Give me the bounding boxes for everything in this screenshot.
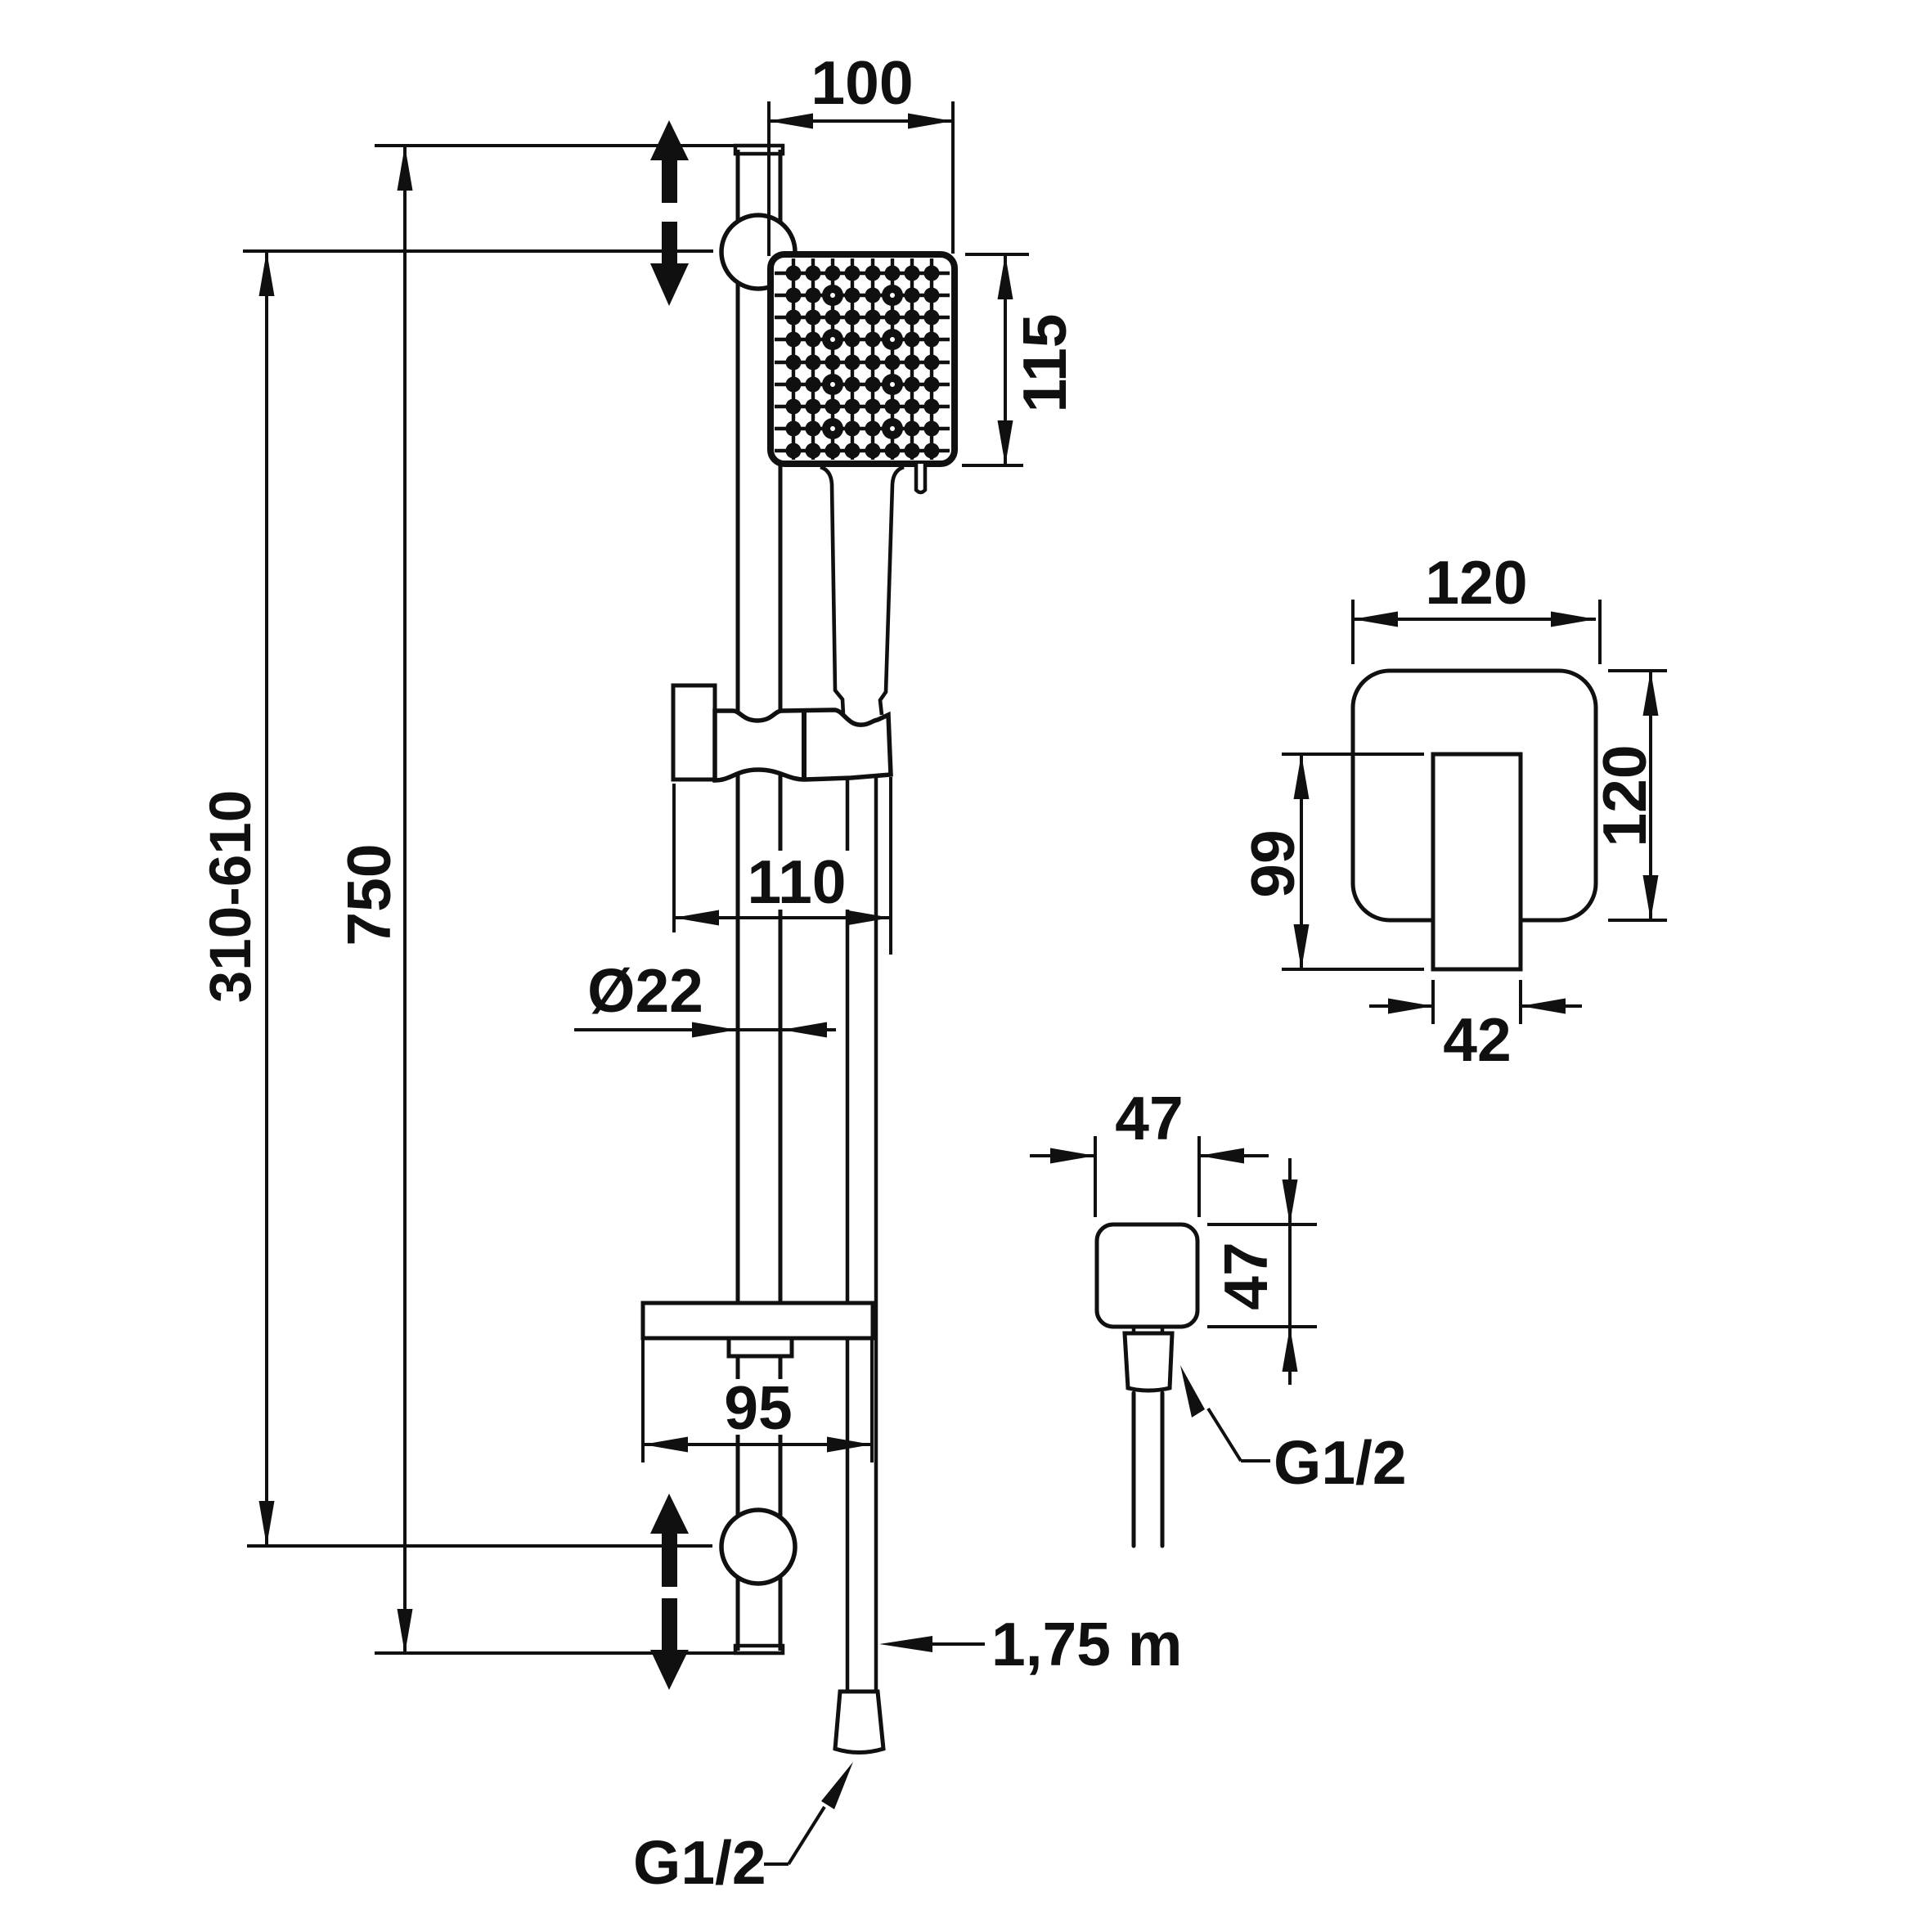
soap dish bar (643, 1303, 873, 1338)
adjustability arrow down (bottom) (650, 1598, 689, 1690)
label 1,75 m with arrow (931, 1642, 985, 1646)
rail top end cap (735, 146, 783, 154)
svg-text:95: 95 (724, 1373, 792, 1442)
dimension 99 (1282, 753, 1424, 756)
svg-text:G1/2: G1/2 (1274, 1428, 1407, 1497)
svg-text:100: 100 (811, 48, 913, 117)
adjustability arrow up (top) (650, 120, 689, 203)
dimension 310-610 (265, 251, 268, 1546)
dimension 47 (right) (1207, 1223, 1317, 1226)
wall outlet plate (1353, 671, 1596, 920)
dimension 42 (1431, 980, 1435, 1024)
top wall bracket (circle) (721, 215, 795, 289)
hose stub (1132, 1393, 1136, 1546)
conical hose nut (1125, 1333, 1172, 1391)
bottom wall bracket (circle) (721, 1510, 795, 1584)
soap dish under-lip (729, 1338, 792, 1356)
leader line at rail bottom (375, 1651, 735, 1655)
svg-text:Ø22: Ø22 (587, 956, 703, 1025)
dimension 750 (403, 146, 407, 1654)
shower head nozzle dots (786, 266, 802, 281)
slider holder divider line (802, 711, 806, 779)
leader line at bottom bracket center (247, 1544, 712, 1548)
shower hose (main view) (846, 777, 850, 1692)
svg-text:120: 120 (1425, 548, 1527, 617)
wall rail (vertical slide bar) (736, 150, 740, 1651)
dimension 115 (965, 253, 1029, 256)
svg-text:47: 47 (1211, 1242, 1280, 1310)
svg-text:G1/2: G1/2 (633, 1828, 766, 1897)
hand shower handle (820, 467, 843, 715)
dimension Ø22 (574, 1028, 836, 1031)
slider holder body (715, 710, 891, 780)
svg-text:310-610: 310-610 (199, 790, 263, 1004)
shower head face grid (792, 258, 795, 460)
svg-text:1,75 m: 1,75 m (991, 1610, 1183, 1678)
wall outlet spout (1433, 754, 1521, 969)
shower head plate (771, 254, 955, 464)
dimension 120 (top) (1351, 600, 1355, 664)
hose end cone (835, 1692, 883, 1753)
svg-text:120: 120 (1590, 744, 1659, 847)
svg-text:110: 110 (748, 847, 847, 916)
hand shower square (top view) (1097, 1224, 1197, 1327)
adjustability arrow up (bottom) (650, 1494, 689, 1587)
svg-text:99: 99 (1238, 829, 1307, 897)
dimension 120 (right) (1608, 669, 1667, 672)
connector neck (1132, 1325, 1136, 1333)
svg-text:750: 750 (335, 843, 403, 946)
dimension 110 (672, 784, 676, 932)
leader line at rail top (375, 144, 735, 147)
rail bottom end cap (735, 1646, 783, 1653)
dimension 100 (767, 101, 771, 256)
slider holder left block (673, 685, 715, 780)
svg-text:115: 115 (1010, 314, 1079, 413)
dimension 95 (641, 1338, 645, 1462)
adjustability arrow down (top) (650, 222, 689, 306)
svg-text:42: 42 (1443, 1005, 1511, 1074)
mode switch pin (916, 464, 925, 492)
svg-text:47: 47 (1115, 1084, 1183, 1152)
dimension 47 (top) (1094, 1136, 1097, 1217)
leader line at top bracket center (243, 249, 713, 253)
